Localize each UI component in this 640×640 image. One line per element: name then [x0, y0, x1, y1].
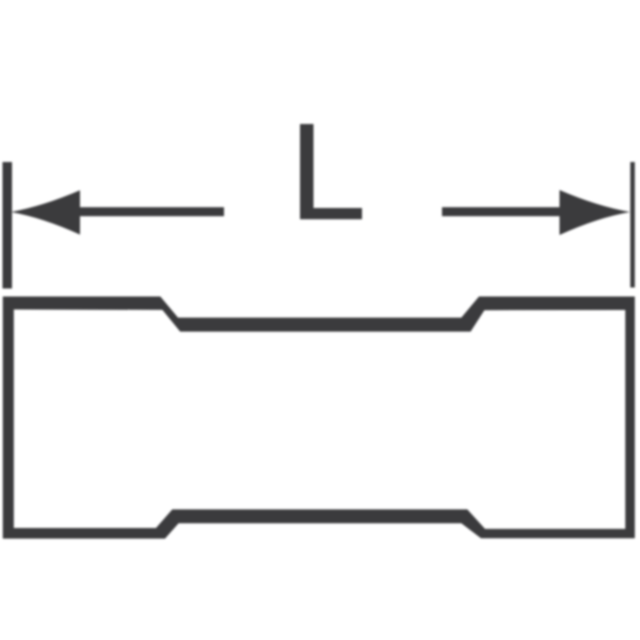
- left arrowhead: [11, 190, 80, 234]
- left dimension shaft: [76, 207, 224, 216]
- right dimension shaft: [442, 207, 562, 216]
- right extension line: [630, 162, 635, 288]
- connector body outline: [3, 297, 635, 539]
- dimension label L: [300, 124, 362, 219]
- right arrowhead: [560, 190, 631, 235]
- left extension line: [3, 162, 13, 289]
